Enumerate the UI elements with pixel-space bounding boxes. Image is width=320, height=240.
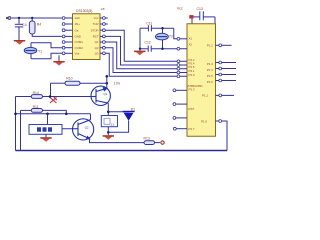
svg-text:C4: C4 <box>22 23 26 27</box>
svg-text:J1: J1 <box>111 122 115 126</box>
wire C12 right to X2 <box>151 48 178 50</box>
svg-text:Q2: Q2 <box>85 125 89 129</box>
svg-text:P1.4: P1.4 <box>207 68 213 72</box>
svg-text:P3.3: P3.3 <box>189 88 195 92</box>
U1 right pin stubs and wires <box>216 45 237 121</box>
wire bottom bus <box>16 150 228 152</box>
wire R10 to node <box>80 82 107 84</box>
svg-text:Q3: Q3 <box>95 52 99 56</box>
IC U1 AT89C2051 body <box>187 24 216 137</box>
svg-text:COM1: COM1 <box>75 40 84 44</box>
wire rail to R14 <box>16 96 32 98</box>
U1 right pin name labels <box>201 43 213 123</box>
wire R11 left <box>21 109 32 111</box>
resistor R11 <box>31 109 42 113</box>
svg-text:D1: D1 <box>131 108 135 112</box>
stub nubs U2 right pins 8-9 <box>105 18 108 24</box>
svg-text:X2: X2 <box>189 43 193 47</box>
wire C11 left to ground loop <box>140 27 148 29</box>
wire C11 right to X1 <box>151 28 178 39</box>
U2 right pin circles 8-14 <box>103 17 106 55</box>
wire R10 left feed <box>51 83 66 96</box>
wire relay bottom stem <box>107 127 109 136</box>
U2 left pin name labels <box>75 16 84 55</box>
svg-text:X1: X1 <box>189 37 193 41</box>
svg-text:TCR: TCR <box>93 22 99 26</box>
wire Q1 emitter to relay top <box>107 103 109 115</box>
wire U2 pin 14 to U1 P3.0 <box>105 53 178 76</box>
svg-text:P1.5: P1.5 <box>207 74 213 78</box>
wire diode loop bottom <box>108 121 128 133</box>
wire Vcc to C13 left <box>194 16 200 18</box>
wire R11 rail down <box>20 110 22 150</box>
wire mid bus <box>16 113 91 115</box>
Vcc power tick <box>189 15 193 18</box>
svg-text:R14: R14 <box>33 91 39 95</box>
wire R14 to Q1 base <box>43 96 92 98</box>
svg-text:1N+: 1N+ <box>75 22 81 26</box>
wire diode loop top <box>108 110 128 113</box>
svg-text:RST: RST <box>189 107 195 111</box>
wire U2 pin 12 to U1 P3.5 <box>105 42 178 69</box>
svg-text:P1.6: P1.6 <box>207 80 213 84</box>
svg-text:Y2: Y2 <box>169 35 173 39</box>
wire C13 right to U1 top <box>203 17 215 24</box>
wire Y1 bottom to U2 pin 7 <box>31 53 62 59</box>
terminal J1 input <box>6 17 11 20</box>
junction bus buzzer tap <box>46 112 49 115</box>
svg-text:P3.0: P3.0 <box>189 73 195 77</box>
label buzzer text glyphs <box>37 127 52 131</box>
svg-text:DS1302(8): DS1302(8) <box>76 9 92 13</box>
ground under U2 <box>53 55 64 65</box>
junction P3.0 net <box>106 75 109 78</box>
wire Q1 collector riser to P3.0 net <box>106 76 108 88</box>
wire R11 right to bus <box>43 110 67 113</box>
svg-text:P1.0: P1.0 <box>201 119 207 123</box>
red power flag on base wire <box>50 97 57 103</box>
U1 left pin circles <box>173 37 180 130</box>
svg-text:Vcc: Vcc <box>177 7 183 11</box>
junction Y2 top <box>161 27 163 29</box>
wire Vcc leg into U1 top <box>191 19 193 24</box>
U2 left pin circles 1-7 <box>62 17 65 55</box>
wire R4 to U2 pin 4 <box>32 34 62 36</box>
svg-text:R11: R11 <box>33 105 39 109</box>
svg-text:1/8: 1/8 <box>101 7 105 11</box>
svg-text:R10: R10 <box>66 77 72 81</box>
resistor R10 <box>65 81 80 85</box>
svg-text:AT89C2051: AT89C2051 <box>188 84 204 88</box>
crystal Y1 <box>24 43 37 59</box>
svg-text:C12: C12 <box>145 41 151 45</box>
transistor Q1 <box>91 86 110 105</box>
junction R10 / Q1 collector <box>106 82 109 85</box>
ground under C12 <box>134 49 145 55</box>
svg-text:Q1: Q1 <box>103 92 107 96</box>
capacitor C12 <box>148 46 151 52</box>
capacitor C13 <box>200 11 204 20</box>
wire U2 pin 13 to U1 P3.1 <box>105 48 178 73</box>
capacitor C4 <box>15 18 23 40</box>
wire left rail <box>15 97 17 151</box>
svg-text:RST: RST <box>93 35 99 39</box>
wire buzzer top stem <box>47 114 49 125</box>
wire R13 to terminal <box>155 142 161 144</box>
svg-text:Vcc: Vcc <box>94 16 99 20</box>
capacitor C11 <box>148 25 151 31</box>
svg-text:P1.3: P1.3 <box>207 62 213 66</box>
U2 right pin name labels <box>91 16 99 55</box>
svg-text:R13: R13 <box>144 137 150 141</box>
svg-text:R4: R4 <box>37 23 41 27</box>
IC U2 DS1302 body <box>73 14 101 60</box>
U2 right pin stubs 8-14 <box>100 18 103 53</box>
svg-text:Ga: Ga <box>75 28 79 32</box>
svg-text:C13: C13 <box>197 7 203 11</box>
svg-text:P1.2: P1.2 <box>207 43 213 47</box>
wire terminal to U2 pin 1 <box>12 17 65 19</box>
wire C12 left <box>140 48 148 50</box>
svg-text:Vss: Vss <box>75 52 80 56</box>
junction C4 top <box>18 17 20 19</box>
svg-text:10k: 10k <box>114 82 121 86</box>
U1 left pin name labels <box>189 37 195 131</box>
svg-text:Y1: Y1 <box>38 49 42 53</box>
junction bus R11 tap <box>65 112 68 115</box>
wire P1.0 to bottom bus <box>222 121 227 151</box>
crystal Y2 <box>156 28 169 49</box>
junction R4 top <box>31 17 33 19</box>
svg-text:GND: GND <box>75 35 81 39</box>
ground under buzzer <box>40 134 51 142</box>
resistor R4 <box>29 18 35 34</box>
resistor R14 <box>31 95 42 99</box>
svg-text:STOP: STOP <box>91 28 99 32</box>
wire ground loop vertical <box>139 28 141 49</box>
resistor R13 <box>144 141 155 145</box>
wire U2 pin 11 to U1 P3.4 <box>105 36 178 65</box>
svg-text:1A0: 1A0 <box>75 16 81 20</box>
terminal open pad after R13 <box>161 141 164 144</box>
ground under C4 <box>14 40 25 45</box>
wire buzzer to Q2 base <box>62 128 73 130</box>
junction C12 ground node <box>139 48 141 50</box>
wire U2 pin 10 to U1 P3.2 <box>105 30 178 61</box>
buzzer LS1 box <box>29 125 62 135</box>
ground under relay <box>103 135 114 140</box>
svg-text:Q1: Q1 <box>95 40 99 44</box>
relay K1 coil box <box>101 116 117 127</box>
junction Y2 bottom <box>161 48 163 50</box>
U1 left pin stubs <box>176 39 187 129</box>
junction relay bottom node <box>107 131 110 134</box>
U2 left pin stubs 1-7 <box>65 18 73 53</box>
wire Q2 collector riser <box>90 114 92 120</box>
junction relay top node <box>107 111 110 114</box>
svg-text:COM2: COM2 <box>75 46 84 50</box>
junction bus left <box>14 112 17 115</box>
svg-text:P3.7: P3.7 <box>189 127 195 131</box>
junction base wire / R10 feed <box>49 95 52 98</box>
wire Y1 top to U2 pin 6 <box>31 43 62 48</box>
U1 right pin circles <box>219 44 222 123</box>
transistor Q2 <box>73 119 94 140</box>
svg-text:P1.1: P1.1 <box>202 94 208 98</box>
svg-text:Q2: Q2 <box>95 46 99 50</box>
diode D1 <box>123 112 135 121</box>
svg-text:C11: C11 <box>146 22 152 26</box>
wire Q2 emitter to R13 <box>90 139 145 143</box>
